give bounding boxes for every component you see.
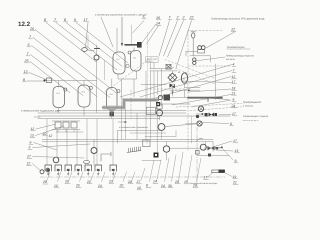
leader 5 (133, 21, 145, 34)
riser above filler bar (131, 25, 133, 44)
dashed diagonal a (165, 60, 215, 79)
dashed horizontal mid (150, 88, 186, 90)
svg-text:14: 14 (156, 22, 160, 26)
blabel 23 (108, 172, 116, 183)
blabel 24 (97, 172, 105, 188)
step outline bottom (103, 102, 158, 110)
right column label 4 (232, 63, 236, 67)
svg-text:воздуха: воздуха (147, 61, 153, 63)
dashed brake line 2 (190, 107, 242, 111)
svg-text:2: 2 (176, 16, 179, 20)
drop x205 (205, 142, 207, 147)
drops from charging line to vessels (59, 79, 112, 88)
vent valve on stem (191, 32, 196, 56)
brake unit 1 (45, 165, 52, 175)
svg-text:21: 21 (232, 181, 237, 185)
leader 7c (159, 21, 170, 57)
leader 17 right (210, 141, 232, 148)
drop x213 (212, 142, 214, 152)
leader top 8 (46, 23, 97, 63)
lower left label 5 (28, 146, 32, 150)
vessel B (131, 51, 142, 72)
drop x47 (46, 119, 48, 165)
svg-text:10: 10 (54, 184, 58, 188)
vertical x191.5 (191, 116, 193, 143)
label 17 right (233, 139, 238, 143)
diamond valve (168, 73, 177, 82)
diamond stem up (172, 71, 174, 73)
leader r7 (140, 71, 232, 98)
dashed rect top edge (188, 30, 222, 32)
leader from 25 (30, 62, 70, 93)
svg-text:18: 18 (232, 87, 236, 91)
dashed horizontal to brakes (176, 103, 242, 107)
drop x113 (112, 119, 114, 165)
leader top 8b (66, 23, 122, 67)
leader 13 right (216, 150, 233, 151)
brake unit 2 (55, 165, 62, 175)
svg-text:12: 12 (27, 162, 31, 166)
label 19 (233, 175, 238, 179)
main line double top (150, 69, 177, 71)
line reducer left (186, 51, 198, 56)
separator stem (185, 83, 201, 87)
bracket fitting (101, 152, 111, 161)
svg-text:13: 13 (30, 134, 34, 138)
twin valve fig8 (193, 58, 196, 65)
svg-text:10: 10 (137, 186, 141, 190)
svg-text:20: 20 (119, 183, 124, 187)
brake unit 7 (110, 165, 117, 175)
drop x97 (96, 119, 98, 165)
right column label 12 (232, 75, 237, 79)
right column label 21 (231, 91, 237, 95)
leader 9 right low (222, 148, 233, 160)
pipe y130 (118, 129, 160, 131)
label 10 (156, 16, 161, 20)
leader r6 (192, 100, 231, 107)
leader from 26 (35, 30, 117, 94)
valve circle T2 (89, 86, 92, 89)
U pipe under vessels (118, 71, 137, 79)
pipe y99 right (206, 98, 229, 100)
lower left label 27 (26, 155, 32, 159)
drop x161 (161, 69, 163, 106)
drop x146 (145, 71, 147, 140)
circle valve cartridge (156, 104, 162, 120)
svg-text:к коллектору управления заслон: к коллектору управления заслонкой и заве… (95, 14, 147, 17)
box fitting x143 (143, 140, 150, 147)
svg-text:6: 6 (28, 43, 30, 47)
svg-text:27: 27 (26, 155, 31, 159)
drop to y97 valve (157, 71, 159, 95)
bus line 3 (38, 118, 160, 120)
label 26 (29, 27, 35, 31)
leader ll12 (36, 124, 56, 129)
svg-text:29: 29 (127, 180, 132, 184)
svg-text:26: 26 (29, 27, 34, 31)
dark valve under diamond (170, 84, 175, 89)
pipe T3 down (111, 110, 113, 119)
dashed vertical x147 (147, 32, 149, 100)
text required pressure (243, 100, 261, 107)
svg-text:29: 29 (192, 184, 197, 188)
right column label 17 (232, 80, 237, 84)
svg-text:С: С (183, 78, 185, 81)
hline y155 right (197, 155, 229, 157)
svg-text:костыля: костыля (226, 58, 235, 61)
dashed diagonal (105, 57, 152, 92)
pipe T2 down (83, 107, 85, 116)
svg-text:6: 6 (30, 141, 32, 145)
leader r18 (188, 89, 231, 92)
label 13 (24, 70, 29, 74)
blabel 14 (153, 160, 161, 184)
fitting on riser top (95, 48, 100, 50)
pipe y136.5 corner (145, 130, 176, 136)
vessel T1 (53, 87, 65, 108)
leader 9 right mid (202, 123, 229, 124)
svg-text:12: 12 (31, 127, 35, 131)
label 9 mid (230, 122, 234, 126)
svg-text:13: 13 (235, 149, 239, 153)
reducer twin circles (198, 46, 206, 53)
svg-text:10: 10 (156, 16, 160, 20)
valve circle lower mid right (163, 142, 169, 161)
charge valve body (47, 78, 52, 83)
svg-text:20: 20 (64, 180, 69, 184)
blabel 24 (160, 158, 169, 188)
blabel 15 (184, 155, 192, 184)
charge valve dot (43, 79, 45, 81)
svg-text:15: 15 (184, 180, 188, 184)
blabel 8 (146, 160, 154, 188)
leader diag from text (101, 17, 113, 47)
drop x137 (136, 113, 138, 140)
svg-text:Трубопроводы высокого (РУ) дав: Трубопроводы высокого (РУ) давления возд… (211, 18, 265, 21)
svg-text:5: 5 (143, 15, 145, 19)
svg-text:12: 12 (232, 75, 236, 79)
pipe y160.5 (142, 160, 161, 162)
valve circle y123 (186, 121, 202, 126)
line under reducer (190, 56, 211, 62)
dark filler bar (125, 44, 140, 46)
leader 12 (206, 32, 235, 48)
svg-text:17: 17 (232, 112, 236, 116)
pipe from bar to vessel B (133, 48, 135, 53)
manifold rect 2 (63, 122, 69, 128)
leader r21 (172, 95, 231, 106)
valve circle at vessel B top (128, 51, 131, 54)
svg-text:13: 13 (24, 70, 28, 74)
svg-text:14: 14 (153, 180, 157, 184)
drop x147 low (146, 140, 148, 144)
drop x125 (125, 109, 127, 140)
text control brake (243, 115, 269, 121)
bus line 0 (57, 110, 186, 112)
dark square fitting (137, 42, 142, 48)
line right of cluster (215, 146, 223, 148)
right column label 18 (232, 87, 237, 91)
dashdot vertical right (196, 127, 198, 187)
comb element (127, 147, 141, 153)
drop x57 (56, 130, 58, 158)
label 25 (24, 59, 30, 63)
gauge marks lower (196, 139, 203, 142)
right down pipe (215, 64, 217, 100)
svg-text:9: 9 (74, 18, 76, 22)
blabel 29b (192, 158, 201, 188)
drop x117.5 (117, 130, 119, 143)
drop x157 junction (156, 106, 158, 152)
svg-text:7: 7 (233, 69, 235, 73)
label 2 (176, 16, 181, 20)
manifold bottom rail (52, 129, 80, 131)
text main valve (227, 46, 250, 49)
pipe up from vessel A (116, 28, 118, 53)
brake unit 6 (95, 165, 102, 175)
valve circle on riser (94, 55, 99, 60)
link oval to valve (87, 50, 94, 51)
dashed diagonal b (172, 67, 215, 84)
svg-text:17: 17 (204, 176, 208, 180)
leader r4 (120, 65, 232, 98)
box drops (151, 62, 155, 68)
blabel 20 (64, 172, 72, 184)
drop x87 (86, 119, 88, 161)
drop x77 (76, 130, 78, 166)
wheel circle 1 (40, 170, 44, 174)
svg-text:28: 28 (42, 180, 47, 184)
label 5 (142, 15, 146, 19)
valve circle lower left (53, 157, 59, 163)
leader top 17 (86, 23, 89, 48)
small oval fitting (84, 161, 90, 164)
leader ll27 (33, 157, 85, 159)
label 24 right mid (231, 104, 237, 108)
blabel 25 (75, 172, 83, 188)
blabel 30 (168, 155, 176, 188)
drop from separator line (184, 90, 186, 97)
label 21 far (232, 181, 238, 185)
right column label 7 (232, 69, 236, 73)
dashed vertical main (187, 31, 189, 151)
blabel 28 (42, 172, 50, 184)
svg-text:Пневмоцилиндр открытия: Пневмоцилиндр открытия (226, 55, 255, 58)
valve on line y97 body (164, 95, 171, 101)
leader r12 (152, 77, 231, 100)
svg-text:24: 24 (97, 184, 102, 188)
blabel 10 (54, 172, 61, 188)
lower bus line 2 (42, 141, 213, 143)
leader from 8 (27, 80, 43, 82)
arrow down to bar (121, 17, 123, 47)
svg-text:24: 24 (160, 184, 165, 188)
svg-text:Требующееся: Требующееся (243, 100, 261, 104)
leader 2 (164, 21, 178, 57)
svg-text:в тормозах: в тормозах (243, 104, 253, 107)
svg-text:23: 23 (108, 179, 113, 183)
leader 2b (168, 21, 184, 58)
step outline top (103, 98, 158, 105)
pipe T1 down (58, 108, 60, 113)
svg-text:4: 4 (233, 63, 235, 67)
lower left label 12b (27, 162, 32, 166)
arrow label to brake system (118, 121, 148, 129)
thick step pipe (103, 100, 158, 108)
manifold rect 3 (71, 122, 77, 128)
label 6 (27, 43, 31, 47)
pipe y133 (130, 132, 166, 134)
charging line (44, 80, 97, 82)
leader bar left (207, 173, 213, 178)
bottom right dark valve (208, 146, 219, 150)
svg-text:А: А (177, 70, 180, 74)
leader from 7b (31, 55, 84, 96)
valve circle mid (91, 140, 97, 166)
svg-text:6: 6 (233, 98, 235, 102)
valve circle upper cluster (198, 106, 203, 111)
drop x150 (150, 71, 152, 140)
pipe y148 to cluster (170, 147, 200, 149)
top label 17 (84, 18, 89, 22)
pipe vessel B to diamond (141, 84, 166, 86)
label 7c (168, 16, 172, 20)
pipe above oval (87, 35, 89, 48)
drop x67 (66, 130, 68, 166)
svg-text:29: 29 (174, 180, 179, 184)
label 22 (189, 16, 195, 20)
svg-text:5: 5 (29, 146, 31, 150)
right column label 6 (232, 98, 236, 102)
line from junction right (161, 103, 191, 105)
svg-text:к пневмосистеме торможения: к пневмосистеме торможения (119, 126, 148, 129)
svg-text:27: 27 (136, 180, 141, 184)
svg-text:21: 21 (86, 180, 91, 184)
leader ll13 (36, 126, 65, 136)
svg-text:17: 17 (233, 139, 237, 143)
filter cross fitting (166, 65, 171, 70)
brake unit 5 (85, 165, 92, 175)
svg-text:21: 21 (231, 91, 236, 95)
lower left label 12 (31, 127, 36, 131)
label 14 (156, 22, 161, 26)
vessel T2 (78, 85, 90, 107)
label 7b (26, 52, 30, 56)
leader 10-14 (141, 24, 159, 44)
top label 9 (74, 18, 78, 22)
top label 8b (64, 18, 68, 22)
bottom right valve circle (200, 144, 206, 150)
drop x154 (153, 71, 155, 100)
vertical pipe x104 (103, 60, 105, 80)
leader ll12b (32, 164, 41, 171)
junction square right edge (208, 154, 211, 157)
box fitting left of junction (146, 107, 155, 114)
junction square lower (154, 153, 159, 158)
blabel 21 (86, 172, 94, 184)
svg-text:Основной кран: Основной кран (227, 46, 245, 49)
brake unit 4 (75, 165, 82, 175)
label 17 right mid (219, 112, 237, 116)
top label 8 (44, 18, 48, 22)
vessel A (113, 52, 125, 74)
text pneumocylinder right (226, 55, 255, 61)
lower bus line 1 (42, 139, 213, 141)
manifold drops (58, 130, 74, 133)
svg-text:8: 8 (146, 184, 148, 188)
leader top 7 (56, 23, 117, 71)
svg-text:9: 9 (230, 122, 232, 126)
svg-text:9: 9 (235, 159, 237, 163)
svg-text:25: 25 (75, 184, 80, 188)
blabel 29 (174, 152, 183, 184)
leader 22 (176, 21, 192, 69)
label 2b (182, 16, 187, 20)
leader from 6 (32, 46, 98, 97)
svg-text:8: 8 (64, 18, 66, 22)
pipe down from U (121, 79, 123, 100)
junction square upper (156, 102, 160, 106)
blabel 29 (127, 172, 135, 184)
svg-text:12: 12 (231, 28, 235, 32)
line y97 right (170, 97, 213, 99)
leader ll6 (34, 143, 58, 151)
manifold top rail (52, 120, 80, 122)
bus line 1 (38, 112, 186, 114)
extra labels pair lower left (43, 132, 53, 138)
label 9 right low (234, 159, 238, 163)
small circle between vessels (126, 64, 129, 67)
separator oval (181, 73, 187, 83)
tick under text (34, 116, 40, 118)
drop x121 (121, 102, 123, 140)
leader 19-21 (225, 173, 233, 177)
bottom label 17 right (204, 176, 209, 180)
svg-text:25: 25 (24, 59, 29, 63)
brake unit 3 (65, 165, 72, 175)
riser pipe (96, 45, 98, 113)
svg-text:2: 2 (182, 16, 185, 20)
svg-text:17: 17 (232, 80, 236, 84)
fitting square lower (196, 151, 200, 155)
blabel 20b (119, 172, 127, 187)
dashed line y66 (188, 65, 231, 67)
dark pipe segment (188, 97, 222, 99)
leader to kostyl text (196, 57, 225, 61)
label 12 top right (231, 28, 236, 32)
valve circle mid right (158, 124, 196, 140)
svg-text:8: 8 (23, 78, 25, 82)
line right from valve (204, 147, 222, 149)
label 13 right (235, 149, 240, 153)
valve circle T1 (64, 88, 67, 91)
lower left label 6 (29, 141, 33, 145)
svg-text:12: 12 (49, 134, 53, 138)
valve on line y97 circle (158, 95, 162, 99)
bus line 2 (38, 115, 230, 117)
wheel circle 2 (46, 168, 50, 172)
svg-text:22: 22 (189, 16, 194, 20)
dashdot centerline bottom (40, 176, 225, 178)
valve under T3 (110, 112, 115, 117)
pipe y132 left (56, 131, 83, 133)
manifold rect 1 (55, 122, 61, 128)
diamond stem down (172, 88, 174, 96)
label 7 (29, 35, 33, 39)
actuator dark bar (212, 170, 225, 173)
svg-text:Управляющего тормоза: Управляющего тормоза (243, 115, 269, 118)
